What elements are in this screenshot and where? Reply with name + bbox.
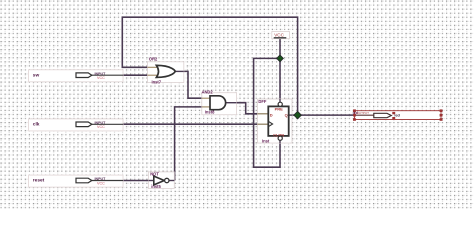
svg-text:led: led (394, 113, 400, 117)
and-gate AND2 inst8 (202, 90, 237, 115)
or-gate OR2 inst7 (148, 57, 184, 85)
wire OR output to AND input 1 (184, 71, 202, 98)
svg-text:inst7: inst7 (152, 79, 162, 84)
wire NOT output to AND input 2 (175, 107, 202, 181)
wire VCC net to PRE and CLRN (254, 39, 280, 167)
svg-text:inst: inst (262, 138, 270, 143)
svg-text:PRE: PRE (275, 107, 284, 112)
svg-text:VCC: VCC (97, 76, 105, 80)
wire reset pin to NOT input (123, 180, 148, 182)
wire feedback net: Q output up over top to OR input (122, 17, 297, 115)
wire clk pin to DFF clock input (123, 123, 258, 125)
svg-text:NOT: NOT (150, 171, 159, 176)
wire DFF Q output to output pin (292, 114, 355, 116)
svg-text:OUTPUT: OUTPUT (357, 111, 370, 115)
DFF clock triangle (268, 121, 272, 126)
not-gate NOT inst5 (148, 171, 174, 188)
svg-text:DFF: DFF (258, 99, 266, 104)
selection handles (353, 109, 443, 120)
wire AND output to DFF D input (237, 103, 258, 114)
svg-text:sw: sw (33, 73, 40, 78)
input pin clk (29, 119, 123, 131)
svg-text:inst5: inst5 (151, 184, 161, 189)
svg-text:OR2: OR2 (149, 57, 158, 62)
junction node VCC tee (277, 55, 284, 62)
svg-text:Q: Q (285, 112, 288, 117)
input pin sw (29, 70, 123, 82)
svg-text:VCC: VCC (274, 33, 284, 38)
d-flip-flop DFF inst (258, 99, 293, 143)
svg-text:reset: reset (33, 178, 45, 184)
junction node Q output tee (294, 111, 302, 119)
svg-text:D: D (270, 112, 273, 117)
input pin reset (29, 175, 123, 187)
svg-text:AND2: AND2 (202, 90, 214, 95)
svg-text:inst8: inst8 (205, 110, 215, 115)
svg-text:clk: clk (33, 122, 40, 128)
power VCC symbol (272, 32, 290, 39)
wire sw pin to OR gate lower input (123, 74, 148, 76)
DFF preset PRE (278, 102, 282, 106)
output pin led (selected, red with handles) (353, 109, 443, 120)
svg-text:VCC: VCC (97, 181, 105, 185)
svg-text:VCC: VCC (97, 125, 105, 129)
